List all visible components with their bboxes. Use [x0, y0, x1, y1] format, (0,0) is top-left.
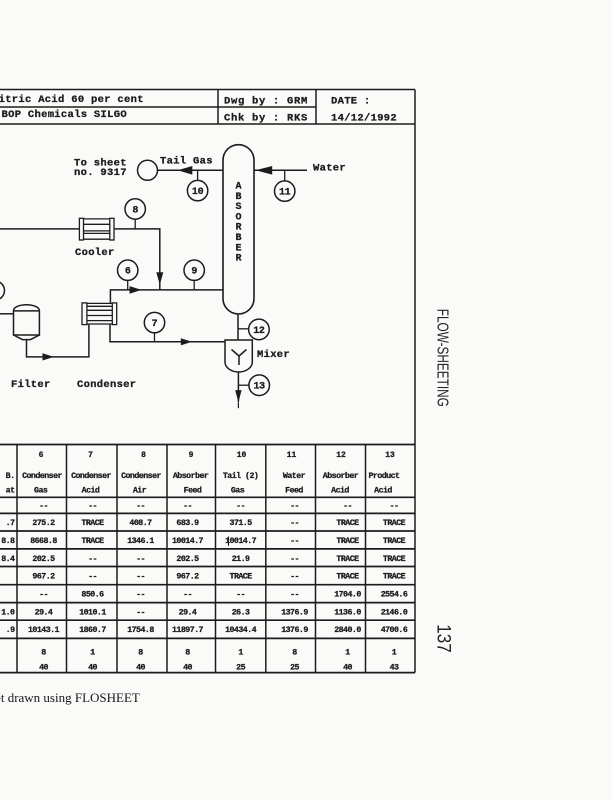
- svg-text:8.4: 8.4: [1, 555, 15, 564]
- svg-text:40: 40: [39, 664, 48, 673]
- svg-text:TRACE: TRACE: [383, 519, 406, 528]
- svg-text:40: 40: [183, 664, 192, 673]
- wire mixer outlet: [237, 372, 239, 402]
- filter F1: [14, 305, 40, 340]
- svg-text:1346.1: 1346.1: [127, 537, 154, 546]
- svg-text:TRACE: TRACE: [336, 573, 359, 582]
- svg-text:40: 40: [88, 664, 97, 673]
- svg-text:6: 6: [125, 267, 131, 278]
- svg-text:12: 12: [253, 326, 265, 337]
- wire tick stream 6: [127, 280, 129, 290]
- svg-text:9: 9: [189, 451, 194, 460]
- svg-text:11: 11: [287, 451, 297, 460]
- svg-text:BOP Chemicals SILGO: BOP Chemicals SILGO: [2, 109, 127, 121]
- svg-text:967.2: 967.2: [176, 573, 199, 582]
- svg-text:Nitric Acid 60 per cent: Nitric Acid 60 per cent: [0, 94, 144, 106]
- svg-text:.7: .7: [6, 519, 15, 528]
- svg-text:8: 8: [138, 649, 143, 658]
- svg-text:TRACE: TRACE: [336, 537, 359, 546]
- arrow filter outlet (points right): [43, 353, 54, 360]
- node stream 8: [125, 199, 145, 219]
- svg-text:Condenser: Condenser: [71, 471, 111, 481]
- svg-text:FLOW-SHEETING: FLOW-SHEETING: [434, 309, 451, 407]
- svg-text:25: 25: [236, 664, 245, 673]
- svg-text:Dwg by : GRM: Dwg by : GRM: [224, 96, 308, 108]
- svg-text:1: 1: [345, 649, 350, 658]
- svg-text:21.9: 21.9: [232, 555, 250, 564]
- svg-text:Absorber: Absorber: [173, 471, 209, 481]
- svg-text:10143.1: 10143.1: [28, 626, 60, 635]
- wire filter inlet: [0, 313, 14, 315]
- absorber column U1: [223, 145, 254, 314]
- svg-text:--: --: [136, 591, 145, 600]
- title block top border: [0, 89, 415, 91]
- svg-text:275.2: 275.2: [32, 519, 55, 528]
- svg-text:Acid: Acid: [374, 486, 392, 496]
- wire absorber bottom to mixer: [237, 314, 239, 340]
- svg-text:.9: .9: [6, 626, 15, 635]
- svg-text:B.: B.: [6, 472, 15, 481]
- wire tick stream 9: [193, 280, 195, 290]
- svg-text:10014.7: 10014.7: [225, 537, 257, 546]
- svg-text:371.5: 371.5: [230, 519, 253, 528]
- svg-text:--: --: [88, 573, 97, 582]
- title block divider right: [315, 90, 317, 125]
- svg-text:--: --: [39, 591, 48, 600]
- svg-text:13: 13: [385, 451, 395, 460]
- arrow tail gas (points left): [178, 166, 193, 175]
- svg-text:26.3: 26.3: [232, 608, 250, 617]
- svg-text:Acid: Acid: [331, 486, 349, 496]
- svg-text:Condenser: Condenser: [22, 471, 62, 481]
- mixer agitator Y: [232, 350, 247, 366]
- wire water line: [254, 169, 307, 171]
- svg-text:Tail (2): Tail (2): [223, 471, 258, 481]
- svg-text:Gas: Gas: [34, 487, 48, 496]
- svg-text:12: 12: [336, 451, 346, 460]
- to-sheet label: [74, 157, 127, 179]
- sheet right border: [414, 90, 416, 673]
- svg-text:2840.0: 2840.0: [334, 626, 361, 635]
- svg-text:Air: Air: [133, 486, 147, 496]
- svg-text:1: 1: [238, 649, 243, 658]
- table row 8: [28, 626, 408, 635]
- svg-text:TRACE: TRACE: [383, 573, 406, 582]
- svg-text:--: --: [390, 502, 399, 511]
- stream table grid: [0, 445, 415, 673]
- svg-text:--: --: [183, 591, 192, 600]
- svg-text:Condenser: Condenser: [121, 471, 161, 481]
- svg-text:14/12/1992: 14/12/1992: [331, 113, 397, 125]
- svg-text:--: --: [136, 555, 145, 564]
- artifact mark over col10 row3: [228, 537, 230, 547]
- title block bottom border: [0, 123, 415, 125]
- svg-text:--: --: [290, 537, 299, 546]
- svg-text:850.6: 850.6: [81, 591, 104, 600]
- svg-text:29.4: 29.4: [35, 608, 53, 617]
- svg-text:Water: Water: [283, 472, 306, 481]
- table header partial column: [6, 472, 15, 496]
- table header numbers: [39, 451, 395, 460]
- svg-text:10014.7: 10014.7: [172, 537, 204, 546]
- svg-text:40: 40: [136, 664, 145, 673]
- svg-text:11897.7: 11897.7: [172, 626, 204, 635]
- svg-text:at: at: [6, 487, 15, 496]
- node stream 9: [184, 260, 204, 280]
- svg-text:--: --: [236, 591, 245, 600]
- svg-text:7: 7: [88, 451, 93, 460]
- node stream 11: [275, 181, 295, 201]
- svg-text:683.9: 683.9: [176, 519, 199, 528]
- node stream 7: [144, 312, 164, 332]
- wire cooler outlet to junction: [114, 229, 160, 290]
- svg-text:29.4: 29.4: [179, 608, 197, 617]
- svg-text:TRACE: TRACE: [383, 555, 406, 564]
- condenser E2: [82, 303, 117, 325]
- svg-text:13: 13: [253, 382, 265, 393]
- svg-text:Flowsheet drawn using FLOSHEET: Flowsheet drawn using FLOSHEET: [0, 690, 140, 705]
- table row 10: [39, 664, 399, 673]
- svg-text:Condenser: Condenser: [77, 379, 136, 391]
- svg-text:2554.6: 2554.6: [381, 591, 408, 600]
- svg-text:202.5: 202.5: [176, 555, 199, 564]
- svg-text:--: --: [136, 573, 145, 582]
- svg-text:8668.8: 8668.8: [30, 537, 57, 546]
- absorber label (vertical): [235, 182, 241, 265]
- svg-text:8: 8: [132, 205, 138, 216]
- arrow stream 7 (points right): [181, 338, 192, 345]
- svg-text:TRACE: TRACE: [230, 573, 253, 582]
- arrow product (points down): [235, 390, 241, 402]
- svg-text:--: --: [136, 608, 145, 617]
- svg-text:10434.4: 10434.4: [225, 626, 257, 635]
- wire tick stream 10: [197, 170, 199, 180]
- wire tick stream 11: [284, 170, 286, 181]
- wire tick stream 7: [154, 333, 156, 342]
- node stream 6: [118, 260, 138, 280]
- svg-text:9: 9: [191, 267, 197, 278]
- svg-text:Absorber: Absorber: [323, 471, 359, 481]
- cooler E1: [79, 218, 114, 240]
- svg-text:--: --: [236, 502, 245, 511]
- wire cooler inlet: [0, 228, 79, 230]
- svg-text:Mixer: Mixer: [257, 349, 290, 361]
- svg-text:8: 8: [292, 649, 297, 658]
- svg-text:TRACE: TRACE: [336, 555, 359, 564]
- svg-text:Gas: Gas: [231, 487, 245, 496]
- svg-text:6: 6: [39, 451, 44, 460]
- svg-text:Acid: Acid: [82, 486, 100, 496]
- table row 9: [41, 649, 397, 658]
- svg-text:1: 1: [392, 649, 397, 658]
- svg-text:1376.9: 1376.9: [281, 608, 308, 617]
- svg-text:--: --: [290, 502, 299, 511]
- svg-text:--: --: [88, 502, 97, 511]
- svg-text:--: --: [183, 502, 192, 511]
- svg-text:--: --: [343, 502, 352, 511]
- node stream 12: [249, 319, 270, 340]
- svg-text:967.2: 967.2: [32, 573, 55, 582]
- svg-text:40: 40: [343, 664, 352, 673]
- svg-text:Feed: Feed: [285, 486, 303, 496]
- svg-text:408.7: 408.7: [129, 519, 152, 528]
- svg-text:TRACE: TRACE: [336, 519, 359, 528]
- wire tick stream 12: [238, 328, 249, 330]
- node stream 10: [187, 180, 207, 200]
- svg-text:1010.1: 1010.1: [79, 608, 106, 617]
- node stream 13: [249, 375, 270, 396]
- svg-text:8: 8: [185, 649, 190, 658]
- node stream 5 (partial, page edge): [0, 281, 5, 300]
- table row 2: [32, 519, 405, 528]
- svg-text:8.8: 8.8: [1, 537, 15, 546]
- svg-text:11: 11: [279, 188, 291, 199]
- svg-text:Tail Gas: Tail Gas: [160, 156, 213, 168]
- svg-text:Filter: Filter: [11, 379, 51, 391]
- svg-text:7: 7: [152, 319, 158, 330]
- svg-text:1754.8: 1754.8: [127, 626, 154, 635]
- svg-text:10: 10: [192, 187, 204, 198]
- table row 7: [35, 608, 408, 617]
- off-sheet connector circle: [138, 160, 158, 180]
- svg-text:1376.9: 1376.9: [281, 626, 308, 635]
- svg-text:--: --: [290, 519, 299, 528]
- title block divider left: [217, 90, 219, 125]
- table row 4: [32, 555, 405, 564]
- wire condenser bottom to mixer (stream 7 line): [110, 325, 225, 342]
- wire tail gas line: [158, 169, 224, 171]
- wire tick stream 8: [134, 219, 136, 229]
- arrow water (points left): [256, 166, 273, 175]
- wire product stub: [237, 402, 239, 408]
- svg-text:no. 9317: no. 9317: [74, 167, 127, 179]
- svg-text:202.5: 202.5: [32, 555, 55, 564]
- svg-text:DATE :: DATE :: [331, 96, 371, 108]
- svg-text:1704.0: 1704.0: [334, 591, 361, 600]
- svg-text:1136.0: 1136.0: [334, 608, 361, 617]
- table row 3: [30, 537, 405, 546]
- table row 6: [39, 591, 408, 600]
- svg-text:Chk by : RKS: Chk by : RKS: [224, 113, 308, 125]
- svg-text:8: 8: [141, 451, 146, 460]
- wire filter outlet to condenser: [27, 325, 89, 357]
- svg-text:Water: Water: [313, 163, 346, 175]
- mixer M1: [225, 340, 252, 372]
- table row 5: [32, 573, 405, 582]
- svg-text:25: 25: [290, 664, 299, 673]
- wire tick stream 13: [238, 384, 249, 386]
- svg-text:--: --: [290, 573, 299, 582]
- svg-text:1860.7: 1860.7: [79, 626, 106, 635]
- svg-text:Cooler: Cooler: [75, 247, 115, 259]
- arrow main line (points right): [130, 286, 142, 294]
- table header names line 1: [22, 471, 400, 481]
- arrow down to main line: [156, 272, 163, 285]
- svg-text:--: --: [290, 555, 299, 564]
- svg-text:--: --: [88, 555, 97, 564]
- svg-text:4700.6: 4700.6: [381, 626, 408, 635]
- title block middle divider: [0, 106, 316, 108]
- svg-text:TRACE: TRACE: [81, 537, 104, 546]
- svg-text:--: --: [39, 502, 48, 511]
- table header names line 2: [34, 486, 392, 496]
- svg-text:R: R: [235, 254, 241, 265]
- wire main line to absorber: [110, 290, 223, 303]
- svg-text:--: --: [136, 502, 145, 511]
- svg-text:1: 1: [90, 649, 95, 658]
- svg-text:--: --: [290, 591, 299, 600]
- svg-text:2146.0: 2146.0: [381, 608, 408, 617]
- table row 1: [39, 502, 398, 511]
- svg-text:1.0: 1.0: [1, 608, 15, 617]
- svg-text:Product: Product: [368, 471, 400, 481]
- svg-text:43: 43: [390, 664, 399, 673]
- svg-text:8: 8: [41, 649, 46, 658]
- svg-text:TRACE: TRACE: [81, 519, 104, 528]
- svg-text:137: 137: [433, 624, 454, 653]
- svg-text:10: 10: [237, 451, 247, 460]
- svg-text:Feed: Feed: [184, 486, 202, 496]
- svg-text:TRACE: TRACE: [383, 537, 406, 546]
